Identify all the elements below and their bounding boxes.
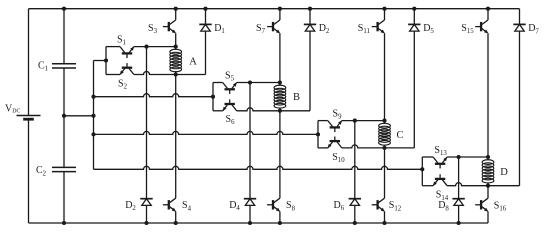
svg-text:D7: D7 [528, 23, 539, 35]
svg-text:S4: S4 [182, 200, 192, 212]
svg-text:D2: D2 [319, 23, 330, 35]
svg-text:D5: D5 [423, 23, 434, 35]
svg-text:D2: D2 [125, 200, 136, 212]
svg-text:S12: S12 [389, 200, 402, 212]
svg-text:C2: C2 [36, 165, 47, 177]
svg-text:VDC: VDC [5, 103, 20, 114]
svg-text:D1: D1 [214, 23, 225, 35]
svg-text:S1: S1 [117, 35, 126, 47]
svg-text:S16: S16 [494, 200, 507, 212]
svg-text:C1: C1 [38, 61, 48, 73]
svg-text:S15: S15 [461, 23, 474, 35]
svg-text:S2: S2 [118, 78, 128, 90]
svg-text:B: B [293, 92, 300, 103]
svg-text:D6: D6 [334, 200, 345, 212]
svg-text:S7: S7 [256, 23, 266, 35]
svg-text:D: D [500, 167, 508, 178]
svg-text:S10: S10 [332, 152, 345, 164]
svg-text:S3: S3 [148, 23, 158, 35]
svg-text:S5: S5 [225, 70, 235, 82]
svg-text:A: A [189, 57, 197, 68]
svg-text:C: C [397, 130, 404, 141]
svg-text:S9: S9 [333, 109, 343, 121]
svg-text:S13: S13 [434, 145, 447, 157]
svg-text:D4: D4 [229, 200, 240, 212]
svg-text:S6: S6 [226, 114, 236, 126]
svg-text:D8: D8 [438, 200, 449, 212]
svg-text:S8: S8 [286, 200, 296, 212]
svg-text:S11: S11 [358, 23, 370, 35]
